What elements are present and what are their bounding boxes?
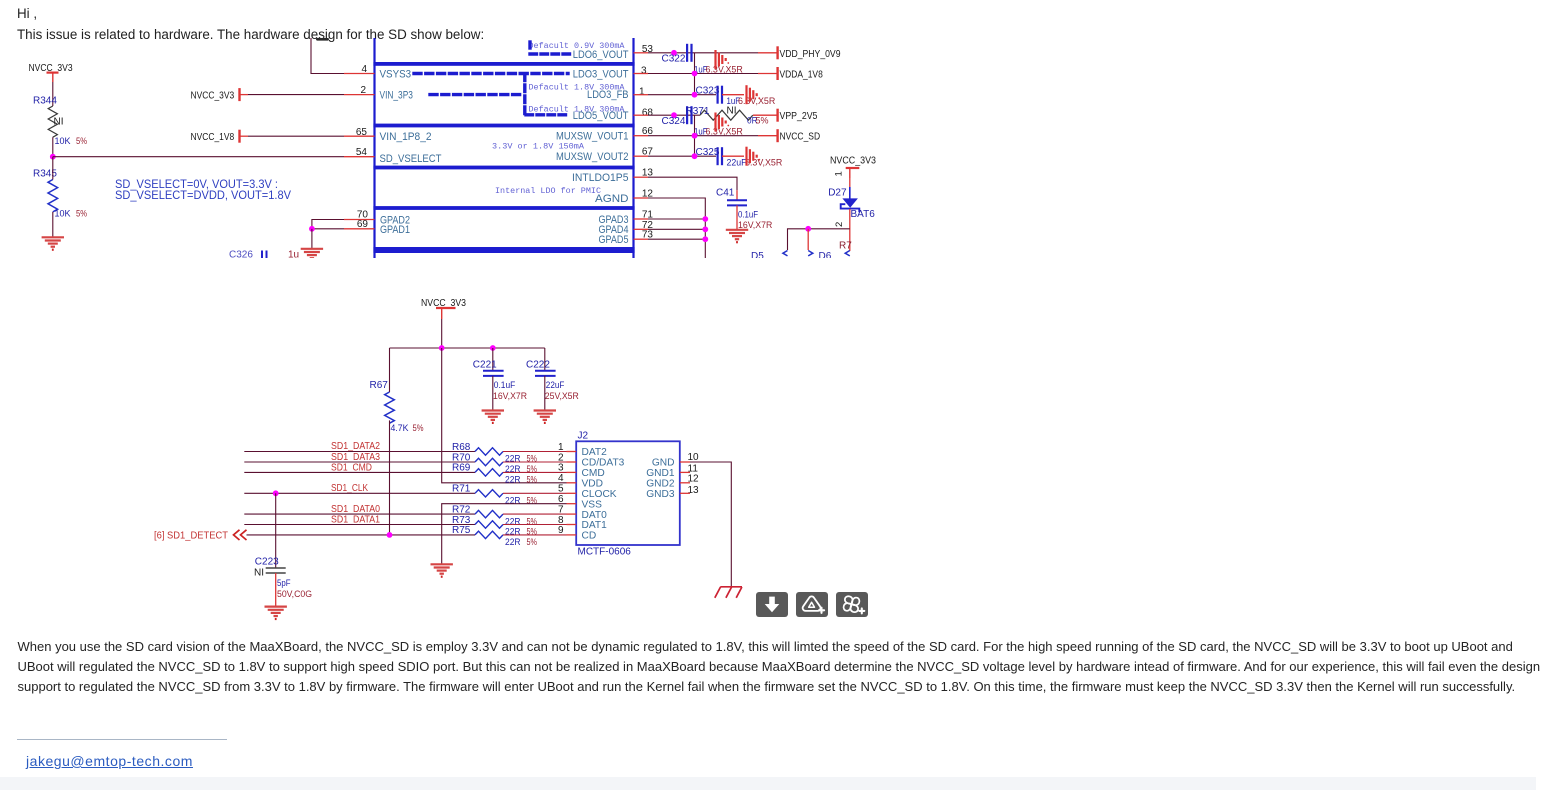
wire pin 71 GPAD3 bbox=[634, 218, 649, 220]
svg-text:VSS: VSS bbox=[582, 499, 603, 510]
svg-text:0.1uF: 0.1uF bbox=[738, 209, 758, 219]
svg-text:7: 7 bbox=[558, 504, 564, 515]
junction node C324 bbox=[671, 112, 677, 118]
wire R67 down to SD1_DETECT bbox=[389, 420, 391, 535]
junction node GPAD3 bbox=[702, 216, 708, 222]
svg-text:10: 10 bbox=[688, 452, 700, 463]
resistor top (clipped) chevron 1 bbox=[783, 251, 788, 256]
svg-text:NVCC_SD: NVCC_SD bbox=[780, 132, 821, 143]
svg-text:1u: 1u bbox=[288, 250, 299, 261]
svg-text:VDD_PHY_0V9: VDD_PHY_0V9 bbox=[780, 49, 841, 60]
J2 pin numbers 1-9 bbox=[558, 442, 564, 536]
ground (C221) bbox=[482, 411, 504, 423]
capacitor C221 bbox=[492, 348, 494, 371]
junction node rail pin66 bbox=[692, 133, 698, 139]
wire NVCC_3V3 down bbox=[441, 319, 443, 348]
capacitor C325 bbox=[718, 147, 722, 165]
svg-text:C322: C322 bbox=[662, 54, 686, 65]
svg-text:R69: R69 bbox=[452, 463, 471, 474]
diode D27 BAT60 (schottky) bbox=[849, 187, 851, 199]
svg-text:R73: R73 bbox=[452, 515, 471, 526]
svg-text:R371: R371 bbox=[686, 106, 710, 117]
ground (GPAD, clipped) bbox=[301, 249, 323, 261]
svg-text:NI: NI bbox=[727, 105, 737, 116]
J2 left pin stubs 1-9 bbox=[567, 452, 577, 535]
dashed link to LDO5_VOUT bbox=[526, 113, 568, 116]
power symbol NVCC_3V3 bbox=[436, 308, 456, 319]
svg-text:4.7K: 4.7K bbox=[391, 423, 409, 433]
svg-text:C222: C222 bbox=[526, 360, 550, 371]
svg-text:10K: 10K bbox=[55, 208, 72, 219]
capacitor C322 bbox=[687, 44, 691, 62]
resistor R71 bbox=[475, 490, 503, 497]
svg-text:22uF: 22uF bbox=[727, 157, 747, 167]
svg-text:VSYS3: VSYS3 bbox=[380, 68, 412, 80]
svg-text:MUXSW_VOUT2: MUXSW_VOUT2 bbox=[556, 151, 629, 163]
capacitor C324 bbox=[687, 106, 691, 124]
PMIC section bar 3 bbox=[373, 166, 634, 170]
svg-text:5: 5 bbox=[558, 484, 564, 495]
svg-text:22uF: 22uF bbox=[546, 380, 565, 390]
resistor R69 bbox=[475, 469, 503, 476]
wire NVCC_1V8 to pin 65 bbox=[240, 135, 249, 137]
svg-text:MCTF-0606: MCTF-0606 bbox=[578, 547, 632, 558]
wire GPAD2 pin 70 bbox=[312, 220, 344, 229]
resistor R345 bbox=[48, 180, 58, 212]
svg-text:VPP_2V5: VPP_2V5 bbox=[780, 111, 818, 122]
svg-text:CD: CD bbox=[582, 531, 597, 542]
svg-text:SD_VSELECT: SD_VSELECT bbox=[380, 153, 442, 165]
svg-text:R7: R7 bbox=[839, 241, 852, 252]
wire pin 53 to port VDD_PHY_0V9 bbox=[634, 52, 649, 54]
ground (R345) bbox=[42, 237, 64, 249]
svg-text:8: 8 bbox=[558, 515, 564, 526]
wire NVCC_3V3 to R344 bbox=[52, 82, 54, 106]
svg-text:R75: R75 bbox=[452, 525, 471, 536]
wire SD_VSELECT net to pin 54 bbox=[53, 156, 344, 158]
svg-text:NI: NI bbox=[254, 568, 264, 579]
svg-text:R345: R345 bbox=[33, 169, 57, 180]
junction node GPAD bbox=[309, 226, 315, 232]
svg-text:2: 2 bbox=[834, 222, 845, 227]
svg-text:D27: D27 bbox=[828, 188, 847, 199]
svg-text:GND: GND bbox=[652, 458, 675, 469]
dashed link VIN_3P3 bbox=[430, 93, 520, 96]
cut-off label fragment top bbox=[316, 38, 329, 41]
svg-text:6: 6 bbox=[558, 494, 564, 505]
wire C322 rail down bbox=[694, 53, 696, 95]
svg-text:GND1: GND1 bbox=[646, 468, 675, 479]
svg-text:NVCC_3V3: NVCC_3V3 bbox=[830, 156, 876, 167]
wire pin 1 to C323 bbox=[634, 94, 649, 96]
svg-text:6.3V,X5R: 6.3V,X5R bbox=[706, 64, 744, 74]
junction node GPAD4 bbox=[702, 226, 708, 232]
svg-text:DAT0: DAT0 bbox=[582, 510, 608, 521]
svg-text:6.3V,X5R: 6.3V,X5R bbox=[738, 96, 776, 106]
capacitor C223 (NI) bbox=[275, 493, 277, 567]
PMIC section bar 1 bbox=[373, 62, 634, 66]
svg-text:13: 13 bbox=[688, 485, 700, 496]
PMIC section bar 4 bbox=[373, 206, 634, 210]
svg-text:SD1_DATA3: SD1_DATA3 bbox=[331, 452, 380, 463]
wire C41 to ground bbox=[736, 205, 738, 229]
resistor R73 bbox=[475, 521, 503, 528]
wire R345 top bbox=[52, 157, 54, 180]
wire top stub to pin 4 bbox=[311, 38, 344, 74]
svg-text:R72: R72 bbox=[452, 504, 471, 515]
svg-text:LDO3_VOUT: LDO3_VOUT bbox=[573, 68, 629, 80]
svg-text:R68: R68 bbox=[452, 442, 471, 453]
svg-text:5%: 5% bbox=[527, 537, 538, 547]
capacitor C323 bbox=[718, 86, 722, 104]
dashed link vertical bbox=[523, 74, 526, 114]
power symbol NVCC_3V3 bbox=[47, 73, 59, 82]
svg-text:CD/DAT3: CD/DAT3 bbox=[582, 458, 625, 469]
wire C324 rail down bbox=[694, 115, 696, 156]
svg-text:50V,C0G: 50V,C0G bbox=[277, 589, 312, 599]
dashed link VSYS3 to LDO3_VOUT bbox=[414, 72, 568, 75]
toolbar button download bbox=[756, 592, 788, 617]
svg-text:68: 68 bbox=[642, 107, 654, 118]
svg-text:25V,X5R: 25V,X5R bbox=[545, 391, 579, 401]
svg-text:SD1_DATA2: SD1_DATA2 bbox=[331, 441, 380, 452]
resistor top (clipped) chevron 2 bbox=[808, 251, 813, 256]
svg-text:3.3V or 1.8V 150mA: 3.3V or 1.8V 150mA bbox=[492, 141, 585, 151]
svg-text:R71: R71 bbox=[452, 484, 471, 495]
svg-text:5%: 5% bbox=[527, 475, 538, 485]
svg-text:R344: R344 bbox=[33, 96, 57, 107]
svg-text:C223: C223 bbox=[255, 556, 279, 567]
burst marker C325 bbox=[747, 147, 761, 166]
PMIC section bar 5 (bottom) bbox=[373, 247, 634, 253]
svg-text:22R: 22R bbox=[505, 475, 521, 485]
wire C223 to ground bbox=[275, 573, 277, 606]
svg-text:9: 9 bbox=[558, 525, 564, 536]
svg-text:C41: C41 bbox=[716, 188, 735, 199]
svg-text:22R: 22R bbox=[505, 537, 521, 547]
port NVCC_SD bbox=[777, 129, 779, 142]
svg-text:NVCC_1V8: NVCC_1V8 bbox=[191, 132, 235, 143]
wire pin 68 to port VPP_2V5 bbox=[634, 114, 649, 116]
svg-text:LDO5_VOUT: LDO5_VOUT bbox=[573, 110, 629, 122]
svg-text:SD1_DATA0: SD1_DATA0 bbox=[331, 504, 380, 515]
wire GPAD to ground bbox=[311, 229, 313, 248]
junction node C221 bbox=[490, 345, 496, 351]
svg-text:SD1_CMD: SD1_CMD bbox=[331, 462, 372, 473]
capacitor C222 bbox=[544, 348, 546, 371]
ground (VSS) bbox=[431, 564, 453, 576]
wire R345 to ground bbox=[52, 212, 54, 237]
capacitor C41 bbox=[727, 200, 747, 205]
junction node R67/DETECT bbox=[387, 532, 393, 538]
svg-text:1: 1 bbox=[639, 87, 645, 98]
svg-text:[6] SD1_DETECT: [6] SD1_DETECT bbox=[154, 531, 228, 542]
burst marker C323 bbox=[747, 85, 761, 104]
svg-text:VDD: VDD bbox=[582, 479, 604, 490]
svg-text:2: 2 bbox=[558, 452, 564, 463]
resistor R68 bbox=[475, 448, 503, 455]
svg-text:DAT2: DAT2 bbox=[582, 447, 608, 458]
junction node GPAD5 bbox=[702, 236, 708, 242]
junction node rail pin1 bbox=[692, 92, 698, 98]
svg-text:5pF: 5pF bbox=[277, 578, 291, 588]
PMIC section bar 2 bbox=[373, 124, 634, 128]
junction node SD_VSELECT bbox=[50, 154, 56, 160]
svg-text:3: 3 bbox=[641, 66, 647, 77]
svg-text:Internal LDO for PMIC: Internal LDO for PMIC bbox=[495, 186, 601, 196]
resistor top (clipped) chevron 3 bbox=[845, 251, 850, 256]
svg-text:3: 3 bbox=[558, 463, 564, 474]
wire C325 right lead bbox=[722, 155, 744, 157]
svg-text:NI: NI bbox=[54, 116, 64, 127]
svg-text:INTLDO1P5: INTLDO1P5 bbox=[572, 172, 629, 184]
svg-text:1: 1 bbox=[834, 171, 845, 176]
junction node bottom bbox=[805, 226, 811, 232]
svg-text:SD_VSELECT=DVDD, VOUT=1.8V: SD_VSELECT=DVDD, VOUT=1.8V bbox=[115, 189, 291, 202]
svg-text:5%: 5% bbox=[756, 116, 769, 126]
svg-text:J2: J2 bbox=[578, 431, 589, 442]
junction node rail pin67 bbox=[692, 153, 698, 159]
ground (C41) bbox=[726, 230, 748, 242]
wire bottom net bbox=[788, 229, 850, 250]
port VDD_PHY_0V9 bbox=[777, 46, 779, 59]
junction node C322 bbox=[671, 50, 677, 56]
svg-text:R70: R70 bbox=[452, 452, 471, 463]
svg-text:GND2: GND2 bbox=[646, 479, 675, 490]
wire C221 to ground bbox=[492, 376, 494, 410]
dashed link LDO6 bbox=[530, 42, 570, 54]
J2 right pin stubs 11-13 bbox=[680, 472, 690, 493]
toolbar button add-image bbox=[796, 592, 828, 617]
svg-text:DAT1: DAT1 bbox=[582, 520, 608, 531]
svg-text:D6: D6 bbox=[819, 251, 832, 262]
svg-text:C326: C326 bbox=[229, 250, 253, 261]
connector J2 box bbox=[576, 441, 680, 545]
svg-text:5%: 5% bbox=[76, 208, 87, 219]
wire NVCC_3V3 to pin 2 bbox=[240, 94, 249, 96]
resistor R72 bbox=[475, 510, 503, 517]
toolbar button pinwheel bbox=[836, 592, 868, 617]
svg-text:4: 4 bbox=[558, 473, 564, 484]
wire C222 to ground bbox=[544, 376, 546, 410]
junction node C223 bbox=[273, 490, 279, 496]
svg-text:GPAD5: GPAD5 bbox=[599, 234, 629, 246]
svg-text:SD1_CLK: SD1_CLK bbox=[331, 483, 368, 494]
svg-text:CLOCK: CLOCK bbox=[582, 489, 617, 500]
svg-text:LDO6_VOUT: LDO6_VOUT bbox=[573, 49, 629, 61]
svg-text:10K: 10K bbox=[55, 136, 72, 147]
svg-text:6.3V,X5R: 6.3V,X5R bbox=[706, 127, 744, 137]
wire pin 13 to C41 bbox=[634, 176, 649, 178]
burst marker C324 bbox=[716, 113, 730, 132]
svg-text:NVCC_3V3: NVCC_3V3 bbox=[191, 90, 235, 101]
svg-text:C324: C324 bbox=[662, 116, 686, 127]
resistor R70 bbox=[475, 458, 503, 465]
svg-text:AGND: AGND bbox=[595, 193, 629, 205]
PMIC box right edge bbox=[632, 38, 634, 259]
wire junction down bbox=[807, 229, 809, 250]
wire pin 66 to port NVCC_SD bbox=[634, 135, 649, 137]
svg-text:16V,X7R: 16V,X7R bbox=[738, 220, 773, 230]
wire pin 73 GPAD5 bbox=[634, 238, 649, 240]
svg-text:GPAD1: GPAD1 bbox=[380, 224, 410, 236]
chassis ground bbox=[715, 587, 742, 598]
svg-text:C325: C325 bbox=[696, 147, 720, 158]
port VPP_2V5 bbox=[777, 109, 779, 122]
svg-text:BAT6: BAT6 bbox=[851, 209, 876, 220]
J2 pin numbers 10-13 bbox=[688, 452, 700, 496]
burst marker C322 bbox=[716, 50, 730, 69]
resistor R344 (NI, black) bbox=[48, 106, 57, 137]
svg-text:C221: C221 bbox=[473, 360, 497, 371]
resistor R67 bbox=[389, 348, 391, 392]
wire SD1_DETECT bbox=[247, 534, 476, 536]
wire R344 to junction bbox=[52, 137, 54, 157]
wire NVCC down to VDD pin bbox=[442, 348, 567, 483]
power symbol NVCC_3V3 right bbox=[846, 168, 860, 178]
svg-text:CMD: CMD bbox=[582, 468, 605, 479]
ground (C222) bbox=[534, 411, 556, 423]
wire GPAD1 pin 69 bbox=[312, 228, 344, 230]
junction node NVCC/VDD bbox=[439, 345, 445, 351]
svg-text:GND3: GND3 bbox=[646, 489, 675, 500]
resistor R371 (NI) bbox=[700, 110, 753, 120]
ground (C223) bbox=[265, 607, 287, 619]
J2 right pin names bbox=[646, 458, 675, 500]
svg-text:SD1_DATA1: SD1_DATA1 bbox=[331, 514, 380, 525]
svg-text:5%: 5% bbox=[413, 423, 424, 433]
PMIC U? box left edge bbox=[373, 38, 375, 259]
wire GND pin 10 to chassis bbox=[680, 461, 690, 463]
wire pin 12 AGND bbox=[634, 197, 649, 199]
wire pin 3 to port VDDA_1V8 bbox=[634, 73, 649, 75]
svg-text:LDO3_FB: LDO3_FB bbox=[587, 89, 629, 101]
wire NVCC_3V3 horizontal bbox=[390, 347, 545, 349]
wire pin 72 GPAD4 bbox=[634, 228, 649, 230]
svg-text:C323: C323 bbox=[696, 86, 720, 97]
svg-text:16V,X7R: 16V,X7R bbox=[493, 391, 527, 401]
svg-text:D5: D5 bbox=[751, 251, 764, 262]
resistor R75 bbox=[475, 531, 503, 538]
svg-text:1: 1 bbox=[558, 442, 564, 453]
svg-text:R67: R67 bbox=[370, 380, 389, 391]
svg-text:VIN_3P3: VIN_3P3 bbox=[380, 90, 413, 102]
svg-text:0.1uF: 0.1uF bbox=[494, 380, 516, 390]
port VDDA_1V8 bbox=[777, 67, 779, 80]
svg-text:VIN_1P8_2: VIN_1P8_2 bbox=[380, 131, 432, 143]
svg-text:VDDA_1V8: VDDA_1V8 bbox=[780, 70, 824, 81]
wire D27 down bbox=[849, 209, 851, 251]
junction node rail pin3 bbox=[692, 71, 698, 77]
svg-text:5%: 5% bbox=[76, 136, 87, 147]
wire pin 67 to C325 bbox=[634, 155, 649, 157]
wire VSS to ground bbox=[442, 504, 567, 564]
wire C323 right lead bbox=[722, 94, 744, 96]
J2 left pin names bbox=[582, 447, 625, 541]
wire power to D27 bbox=[849, 178, 851, 187]
